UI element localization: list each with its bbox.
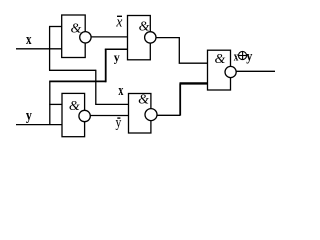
nand gate G3 (y inverter) — [62, 93, 85, 136]
wire: x branch lower horizontal — [49, 69, 96, 71]
wire: G4 output vertical up — [179, 83, 181, 115]
wire: y branch vertical up — [105, 49, 107, 82]
inversion bubble B2 — [145, 32, 156, 43]
svg-text:&: & — [138, 93, 149, 108]
inversion bubble B4 — [145, 109, 157, 121]
svg-text:x: x — [118, 83, 123, 99]
svg-text:&: & — [69, 99, 80, 114]
svg-text:x: x — [26, 32, 32, 48]
wire: x riser — [49, 27, 51, 71]
wire: y riser — [49, 81, 51, 124]
svg-text:x: x — [234, 49, 239, 64]
wire: output to right edge — [236, 70, 275, 72]
wire: x into G4 upper input — [95, 103, 128, 105]
wire: input y stub — [16, 124, 62, 126]
inversion bubble B3 — [79, 110, 90, 121]
wire: y branch top horizontal — [49, 80, 105, 82]
wire: G2 output to G5 upper input — [156, 38, 208, 64]
wire: x-bar from B1 to G2 — [91, 36, 127, 38]
svg-text:&: & — [215, 52, 226, 67]
wire: input x stub — [16, 48, 62, 50]
wire: y to G3 upper input — [49, 103, 62, 105]
nand gate G1 (x inverter) — [62, 15, 85, 58]
wire: G4 output horizontal — [157, 114, 180, 116]
inversion bubble B1 — [80, 32, 91, 43]
inversion bubble B5 — [225, 66, 236, 77]
wire: G4 output into G5 lower input (thick) — [180, 82, 208, 84]
nand gate G2 — [128, 16, 151, 60]
svg-text:y: y — [246, 50, 252, 65]
svg-text:y: y — [26, 108, 32, 124]
wire: x branch vertical down — [95, 70, 97, 105]
nand gate G4 — [129, 94, 151, 134]
wire: y into G2 lower input — [105, 48, 128, 50]
wire: y-bar from B3 to G4 — [90, 115, 128, 117]
svg-text:y: y — [114, 49, 120, 64]
svg-text:y: y — [116, 115, 122, 131]
nand gate G5 (output) — [208, 50, 231, 90]
wire: x to G1 upper input — [49, 26, 62, 28]
